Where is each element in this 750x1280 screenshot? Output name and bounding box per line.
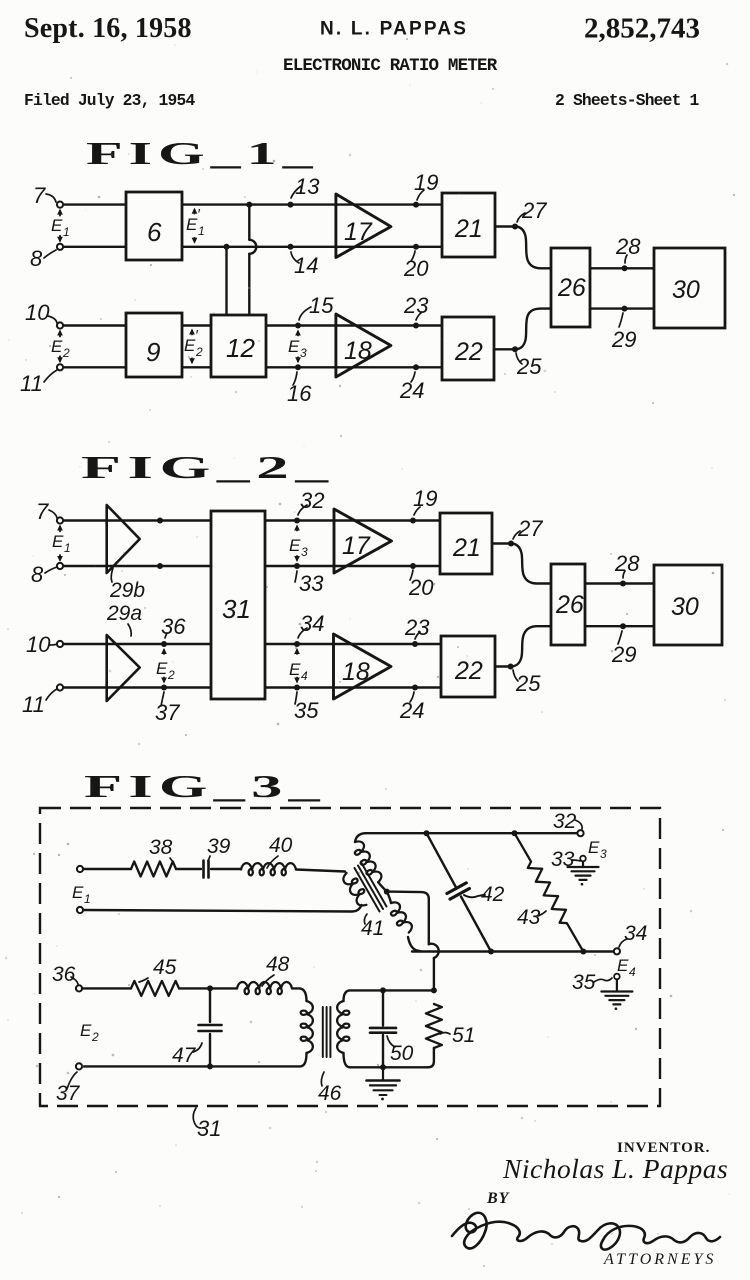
svg-text:7: 7: [33, 183, 46, 208]
svg-text:FIG_2_: FIG_2_: [81, 450, 335, 485]
op-amp 17 fig1: [336, 194, 391, 258]
label E2 fig2: [156, 648, 175, 684]
wire 27 fig2: [492, 516, 551, 584]
resistor 38: [131, 836, 176, 877]
node 32 fig2: [294, 488, 324, 524]
op-amp 29b: [107, 505, 140, 573]
wire top rail upper channel fig2: [63, 519, 440, 521]
svg-text:8: 8: [30, 246, 43, 271]
svg-text:E: E: [80, 1021, 92, 1040]
svg-text:1: 1: [63, 225, 70, 239]
svg-text:E: E: [289, 536, 301, 555]
block 26 fig1: [551, 248, 590, 327]
by: [486, 1190, 510, 1207]
terminal 10 fig2: [57, 641, 63, 647]
transformer 41 core: [355, 863, 387, 912]
node 37 fig2: [155, 685, 180, 726]
wire top rail lower channel fig1: [63, 324, 442, 326]
wire 46 primary bottom: [83, 1053, 307, 1066]
op-amp 17 fig2: [334, 509, 392, 573]
wire node 29 fig2: [585, 623, 654, 667]
svg-text:13: 13: [295, 174, 320, 199]
svg-text:11: 11: [20, 371, 43, 396]
label 31 fig3: [193, 1108, 221, 1141]
svg-text:26: 26: [557, 274, 586, 302]
svg-text:36: 36: [52, 963, 76, 986]
svg-text:25: 25: [516, 354, 542, 379]
svg-text:27: 27: [521, 198, 547, 223]
figure 3 title: [84, 769, 326, 804]
node 19 fig2: [410, 486, 437, 524]
header patent number: [584, 13, 700, 45]
svg-text:Filed July 23, 1954: Filed July 23, 1954: [24, 91, 195, 110]
svg-text:ATTORNEYS: ATTORNEYS: [603, 1251, 716, 1268]
svg-text:E: E: [51, 337, 63, 356]
node 50 bottom: [380, 1064, 386, 1070]
wire E4 bus: [412, 950, 614, 952]
terminal 37 fig3: [76, 1063, 82, 1069]
resistor 51: [426, 1004, 475, 1067]
wire E1 top lead: [83, 868, 131, 870]
attorney signature: [452, 1213, 720, 1250]
label 11: [20, 370, 57, 396]
wire 45-48: [179, 987, 237, 989]
svg-text:31: 31: [222, 594, 251, 624]
node 47 top: [207, 985, 213, 991]
wire E3 bus: [366, 832, 577, 834]
label 8: [30, 246, 56, 271]
capacitor 39: [204, 835, 231, 878]
label E4 fig2: [289, 648, 308, 684]
svg-text:3: 3: [301, 545, 308, 559]
svg-text:1: 1: [64, 541, 71, 555]
block 22 fig2: [441, 636, 495, 697]
svg-text:4: 4: [629, 965, 636, 979]
label E1 fig1: [51, 209, 70, 243]
svg-text:E: E: [156, 659, 168, 678]
node 14: [288, 244, 319, 278]
wire E1 bottom lead: [83, 905, 362, 912]
label E3 fig2: [289, 525, 308, 563]
svg-text:18: 18: [342, 658, 370, 686]
svg-text:34: 34: [300, 611, 324, 636]
block 22 fig1: [442, 317, 494, 380]
node 50 top: [380, 987, 386, 993]
wire bottom rail lower channel fig2: [63, 686, 441, 688]
terminal 11: [57, 364, 63, 370]
svg-text:2: 2: [167, 668, 175, 682]
wire top rail upper channel fig1: [63, 203, 442, 205]
svg-text:30: 30: [671, 593, 699, 621]
wire 27 fig1: [495, 198, 551, 268]
label 33: [551, 848, 580, 871]
wire bottom rail upper channel fig2: [63, 565, 440, 567]
terminal 32: [577, 830, 583, 836]
svg-text:Sept. 16, 1958: Sept. 16, 1958: [24, 13, 192, 44]
svg-text:FIG_1_: FIG_1_: [86, 136, 319, 171]
terminal 36 fig3: [76, 985, 82, 991]
figure 1 title: [86, 136, 319, 171]
svg-text:E: E: [288, 337, 300, 356]
block 9: [126, 313, 182, 377]
label 10: [25, 300, 57, 325]
svg-text:2,852,743: 2,852,743: [584, 13, 700, 45]
svg-text:E: E: [617, 956, 629, 975]
svg-text:40: 40: [269, 834, 293, 857]
svg-text:33: 33: [299, 571, 324, 596]
node 24 fig1: [399, 364, 424, 403]
svg-text:32: 32: [300, 488, 324, 513]
label E1-prime: [186, 206, 205, 244]
block 30 fig2: [654, 565, 722, 645]
wire 38-39: [176, 868, 201, 870]
attorneys heading: [603, 1251, 716, 1268]
node 47 bottom: [207, 1063, 213, 1069]
svg-text:FIG_3_: FIG_3_: [84, 769, 326, 804]
svg-text:ELECTRONIC RATIO METER: ELECTRONIC RATIO METER: [283, 56, 498, 76]
label E2-prime: [184, 327, 203, 364]
svg-text:15: 15: [309, 293, 334, 318]
svg-text:22: 22: [454, 657, 483, 685]
op-amp 29a: [107, 635, 140, 701]
svg-text:47: 47: [172, 1044, 197, 1067]
node res43 bottom: [580, 949, 586, 955]
svg-text:9: 9: [146, 337, 160, 367]
svg-text:33: 33: [551, 848, 575, 871]
label 41: [361, 914, 384, 940]
label E1 fig3: [72, 883, 91, 906]
ground 33: [568, 856, 599, 886]
node 35 fig2: [294, 685, 319, 724]
node after 29b bottom: [157, 563, 163, 569]
wire 25 fig2: [495, 626, 551, 696]
wire hop over E4 bus: [429, 944, 439, 990]
label 10 fig2: [26, 632, 57, 657]
svg-text:29b: 29b: [109, 579, 145, 602]
transformer 46 primary: [301, 1001, 313, 1053]
svg-text:12: 12: [226, 333, 255, 363]
svg-text:45: 45: [153, 956, 177, 979]
node cap42 bottom: [488, 949, 494, 955]
svg-text:29a: 29a: [106, 602, 142, 625]
inductor 48: [237, 953, 292, 994]
svg-text:8: 8: [31, 562, 44, 587]
resistor 43: [515, 833, 584, 951]
svg-text:3: 3: [300, 346, 307, 360]
wire 46 secondary top: [344, 990, 434, 1001]
svg-text:36: 36: [161, 614, 186, 639]
svg-text:N. L. PAPPAS: N. L. PAPPAS: [320, 19, 468, 40]
svg-text:39: 39: [207, 835, 231, 858]
inventor heading: [617, 1140, 710, 1156]
svg-text:E: E: [588, 838, 600, 857]
label E1 fig2: [52, 525, 71, 563]
wire node 28 fig2: [585, 551, 654, 587]
inventor signature: [502, 1153, 728, 1184]
label 7 fig2: [36, 499, 57, 524]
svg-text:4: 4: [301, 669, 308, 683]
svg-text:22: 22: [454, 338, 483, 366]
block 31 fig2: [211, 511, 265, 699]
svg-text:28: 28: [614, 551, 640, 576]
svg-text:35: 35: [294, 698, 319, 723]
svg-text:48: 48: [266, 953, 290, 976]
node 41 center tap: [384, 889, 390, 895]
header title: [283, 56, 498, 76]
wire 36 lead: [82, 987, 131, 989]
svg-text:38: 38: [149, 836, 173, 859]
label E2 fig3: [80, 1021, 99, 1044]
header inventor name: [320, 19, 468, 40]
svg-text:27: 27: [517, 516, 543, 541]
svg-text:24: 24: [399, 698, 424, 723]
svg-text:35: 35: [572, 971, 596, 994]
svg-text:17: 17: [344, 218, 373, 246]
wire node 29 fig1: [590, 306, 654, 352]
node 23 fig1: [403, 293, 429, 329]
label 8 fig2: [31, 562, 57, 587]
transformer 41 primary: [341, 870, 372, 908]
resistor 45: [131, 956, 179, 996]
wire node 28 fig1: [590, 234, 654, 271]
svg-text:26: 26: [555, 591, 584, 619]
label E3 fig3: [588, 838, 607, 861]
svg-text:25: 25: [515, 671, 541, 696]
svg-text:10: 10: [26, 632, 51, 657]
svg-text:16: 16: [287, 381, 312, 406]
node 13: [288, 174, 321, 208]
svg-text:32: 32: [553, 810, 577, 833]
svg-text:29: 29: [611, 642, 636, 667]
node 16: [287, 364, 312, 406]
label 7: [33, 183, 56, 208]
svg-text:23: 23: [403, 293, 429, 318]
header filed date: [24, 91, 195, 110]
node 20 fig2: [408, 563, 434, 600]
svg-text:6: 6: [147, 217, 162, 247]
node 36 fig2: [161, 614, 186, 647]
svg-text:1: 1: [84, 892, 91, 906]
header date: [24, 13, 192, 44]
svg-text:43: 43: [517, 906, 541, 929]
capacitor 50: [370, 990, 414, 1067]
svg-text:19: 19: [413, 486, 437, 511]
svg-text:2 Sheets-Sheet 1: 2 Sheets-Sheet 1: [555, 91, 700, 110]
svg-text:14: 14: [294, 253, 318, 278]
svg-text:2: 2: [62, 346, 70, 360]
ground 46 secondary: [367, 1067, 400, 1100]
svg-text:51: 51: [452, 1024, 475, 1047]
svg-text:1: 1: [198, 224, 205, 238]
transformer 46 secondary: [337, 1001, 349, 1053]
svg-text:21: 21: [454, 215, 483, 243]
block 6: [126, 192, 182, 260]
wire bottom rail upper channel fig1: [63, 246, 442, 248]
ground 35: [601, 974, 632, 1010]
terminal E1 top: [77, 866, 83, 872]
svg-text:19: 19: [414, 170, 438, 195]
svg-text:2: 2: [195, 345, 203, 359]
wire 39-40: [211, 868, 241, 870]
svg-text:′: ′: [197, 206, 201, 223]
node after 29b top: [157, 518, 163, 524]
wire bus right with hop: [246, 202, 256, 315]
svg-text:30: 30: [672, 276, 700, 304]
node res43 top: [512, 830, 518, 836]
label E4 fig3: [617, 956, 636, 979]
node 15: [295, 293, 334, 329]
node cap42 top: [424, 830, 430, 836]
svg-text:E: E: [289, 660, 301, 679]
block 12: [211, 315, 266, 377]
capacitor 42: [427, 833, 505, 951]
wire bottom rail lower channel fig1: [63, 366, 442, 368]
svg-text:21: 21: [452, 534, 481, 562]
terminal 11 fig2: [57, 684, 63, 690]
terminal E1 bottom: [77, 907, 83, 913]
transformer 41 secondary lower: [386, 892, 421, 952]
op-amp 18 fig1: [336, 314, 391, 377]
node 23 fig2: [404, 615, 430, 647]
block 21 fig1: [442, 193, 495, 257]
label 35: [572, 971, 612, 994]
node 33 fig2: [294, 563, 324, 596]
inductor 40: [241, 834, 296, 875]
terminal 10: [57, 322, 63, 328]
label E2 fig1: [51, 330, 70, 364]
transformer 46 core: [323, 1007, 331, 1057]
label 29a: [106, 602, 142, 636]
svg-text:′: ′: [195, 327, 199, 344]
svg-text:E: E: [52, 532, 64, 551]
label 37 fig3: [56, 1072, 81, 1105]
svg-text:2: 2: [91, 1030, 99, 1044]
svg-text:17: 17: [342, 532, 371, 560]
svg-text:37: 37: [155, 700, 180, 725]
wire center tap right: [387, 892, 429, 945]
svg-text:11: 11: [22, 692, 45, 717]
capacitor 47: [172, 988, 222, 1067]
svg-text:E: E: [72, 883, 84, 902]
block 21 fig2: [440, 513, 492, 574]
svg-text:BY: BY: [486, 1190, 510, 1207]
svg-text:E: E: [51, 216, 63, 235]
node 24 fig2: [399, 685, 424, 724]
terminal 7: [57, 202, 63, 208]
svg-text:29: 29: [611, 327, 636, 352]
wire 25 fig1: [494, 309, 551, 379]
wire 48-46: [292, 988, 307, 1001]
svg-text:10: 10: [25, 300, 50, 325]
terminal 7 fig2: [57, 517, 63, 523]
block 26 fig2: [551, 564, 585, 645]
node 34 fig2: [294, 611, 324, 647]
transformer 41 secondary upper: [350, 833, 387, 891]
svg-text:3: 3: [600, 847, 607, 861]
wire 40-41: [296, 870, 345, 872]
svg-text:20: 20: [403, 256, 429, 281]
svg-text:28: 28: [615, 234, 641, 259]
label 11 fig2: [22, 689, 57, 717]
node 19 fig1: [413, 170, 438, 208]
svg-text:7: 7: [36, 499, 49, 524]
svg-text:20: 20: [408, 575, 434, 600]
label E3 fig1: [288, 330, 307, 364]
block 30 fig1: [654, 248, 725, 328]
terminal 34: [614, 948, 620, 954]
terminal 8: [57, 244, 63, 250]
label 34: [619, 922, 647, 947]
node 20 fig1: [403, 244, 429, 281]
dashed box 31: [40, 808, 660, 1106]
svg-text:18: 18: [344, 337, 372, 365]
figure 2 title: [81, 450, 335, 485]
label 29b: [109, 568, 145, 602]
wire top rail lower channel fig2: [63, 643, 441, 645]
header sheet number: [555, 91, 700, 110]
wire 46 secondary bottom: [344, 1053, 429, 1067]
svg-text:34: 34: [624, 922, 647, 945]
label 36 fig3: [52, 963, 78, 986]
svg-text:Nicholas L. Pappas: Nicholas L. Pappas: [502, 1153, 728, 1184]
label 32: [553, 810, 582, 833]
op-amp 18 fig2: [334, 634, 392, 699]
terminal 8 fig2: [57, 563, 63, 569]
node 51 top: [431, 987, 437, 993]
wire bus left: [224, 244, 230, 315]
label 46: [318, 1072, 342, 1105]
